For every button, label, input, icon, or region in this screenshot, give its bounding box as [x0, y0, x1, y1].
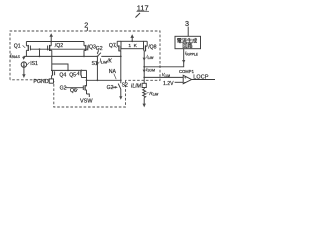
block 3 box (current generation circuit)	[175, 36, 201, 48]
svg-text:RLIM: RLIM	[149, 91, 158, 97]
wire Q5 source to Q6 drain	[81, 77, 86, 79]
ratio box 1:K	[121, 41, 144, 48]
svg-text:NA: NA	[109, 69, 117, 75]
transistor Q8	[144, 41, 148, 67]
node dot rail/Q2 source	[50, 41, 52, 43]
label VLIM	[162, 72, 171, 78]
current arrow ISUM	[143, 70, 146, 73]
plus/minus	[184, 75, 187, 85]
label Q6	[70, 88, 77, 94]
label COMP1	[179, 69, 195, 74]
wire IRIPPLE	[144, 49, 184, 67]
label ILIM (current)	[146, 54, 153, 60]
node dot VLIM	[143, 77, 145, 79]
gate bus drop to bias wire	[39, 49, 41, 56]
current source IS1	[21, 62, 26, 68]
svg-text:G2: G2	[107, 85, 114, 91]
wire Q4/Q5 drain tie	[51, 69, 87, 71]
underline of 117	[137, 10, 150, 12]
transistor Q6	[83, 85, 86, 94]
svg-text:G2: G2	[96, 46, 103, 52]
transistor Q4	[52, 70, 55, 79]
wire G2 to Q6 gate	[66, 87, 84, 89]
block 3 leader tick	[187, 27, 189, 37]
bias wire (node)	[24, 55, 98, 57]
label G2 (at S2) with arrow	[107, 85, 114, 91]
ground arrow below RLIM	[143, 104, 146, 108]
label NA	[109, 69, 117, 75]
wire: top rail	[26, 41, 84, 43]
label G2 (left, gate of Q6)	[60, 85, 67, 91]
label S2	[122, 83, 128, 89]
IBIAS current arrow	[22, 56, 25, 60]
svg-text:Q4: Q4	[59, 72, 66, 78]
label Q7	[109, 43, 116, 49]
label PGND	[33, 79, 48, 85]
svg-text:IRIPPLE: IRIPPLE	[185, 51, 199, 57]
label RLIM	[149, 91, 158, 97]
svg-text:COMP1: COMP1	[179, 69, 195, 74]
label Q2	[55, 43, 63, 49]
node dot IRIPPLE junction	[143, 66, 145, 68]
svg-text:PGND: PGND	[33, 79, 48, 85]
ground arrow below IS1	[22, 67, 25, 78]
svg-text:/Q2: /Q2	[55, 43, 63, 49]
current arrow IRIPPLE	[182, 60, 185, 63]
gate bus Q1-Q2-Q3	[30, 48, 87, 50]
transistor Q7	[117, 41, 121, 51]
svg-text:ILIM: ILIM	[146, 54, 153, 60]
block 2 label	[84, 20, 88, 29]
current arrow ILIM/K	[96, 62, 99, 66]
transistor Q2	[48, 42, 52, 71]
leader of Q6	[76, 89, 78, 91]
leader arrow of G2 top	[97, 50, 99, 54]
svg-text:/Q3: /Q3	[88, 44, 96, 50]
label IRIPPLE	[185, 51, 199, 57]
label ISUM	[146, 67, 155, 73]
label IS1	[30, 61, 38, 67]
supply arrow left	[49, 33, 53, 41]
leader of Q7	[114, 46, 116, 48]
svg-text:Q1: Q1	[14, 44, 21, 50]
label Q8	[148, 44, 156, 50]
resistor RLIM	[143, 88, 146, 105]
transistor Q5	[79, 70, 82, 77]
transistor Q1	[26, 42, 30, 57]
current arrow ILIM	[143, 58, 146, 61]
leader of Q5	[76, 73, 78, 75]
svg-text:ILIM/K: ILIM/K	[100, 59, 113, 65]
leader arrow of 117	[135, 13, 140, 18]
leader of Q1	[23, 45, 26, 47]
supply arrow right	[130, 34, 134, 41]
svg-text:/Q8: /Q8	[148, 44, 156, 50]
leader of NA	[114, 74, 116, 80]
svg-text:回路: 回路	[182, 42, 192, 49]
ILIM terminal pad	[142, 83, 146, 87]
label Q1	[14, 44, 21, 50]
comparator COMP1	[175, 75, 215, 83]
switch S2	[118, 80, 122, 100]
wire VLIM to comparator	[144, 76, 183, 78]
svg-text:ISUM: ISUM	[146, 67, 155, 73]
svg-text:LOCP: LOCP	[193, 75, 209, 81]
svg-text:1.2V: 1.2V	[163, 81, 174, 87]
leader of RLIM	[146, 92, 148, 95]
svg-text:IBIAS: IBIAS	[10, 53, 20, 59]
label ILIM/K	[100, 59, 113, 65]
wire ISUM	[143, 67, 145, 84]
leader of IS1	[27, 62, 29, 65]
label S1	[92, 61, 98, 67]
PGND terminal pad	[49, 79, 53, 83]
svg-text:G2: G2	[60, 85, 67, 91]
node NA wire	[87, 79, 121, 81]
label IBIAS	[10, 53, 20, 59]
svg-text:VSW: VSW	[80, 98, 93, 104]
svg-text:1 K: 1 K	[128, 43, 137, 49]
node label G2 (top)	[96, 46, 103, 52]
labels Q4 Q5	[59, 72, 76, 78]
svg-text:ILIM: ILIM	[131, 83, 142, 89]
switch S1	[97, 53, 101, 81]
wire S1 to Q7 drain column	[101, 55, 121, 57]
reference numeral 117	[137, 3, 149, 12]
svg-text:IS1: IS1	[30, 61, 38, 67]
label LOCP	[193, 75, 209, 81]
wire Q2 drain feed	[51, 56, 53, 58]
block 2 leader tick	[86, 28, 88, 31]
node NA vertical	[86, 70, 88, 86]
label ILIM (pad)	[131, 83, 142, 89]
svg-text:VLIM: VLIM	[162, 72, 171, 78]
block 3 label	[185, 19, 189, 28]
transistor Q3	[84, 42, 88, 57]
label VSW	[80, 98, 93, 104]
wire Q6 source to VSW	[87, 94, 90, 97]
block 2 dashed boundary	[10, 31, 160, 107]
label 1.2V	[163, 81, 174, 87]
label Q3	[88, 44, 96, 50]
wire Q7 drain down to NA	[120, 51, 122, 80]
svg-text:Q5: Q5	[69, 72, 76, 78]
svg-text:S2: S2	[122, 83, 128, 89]
